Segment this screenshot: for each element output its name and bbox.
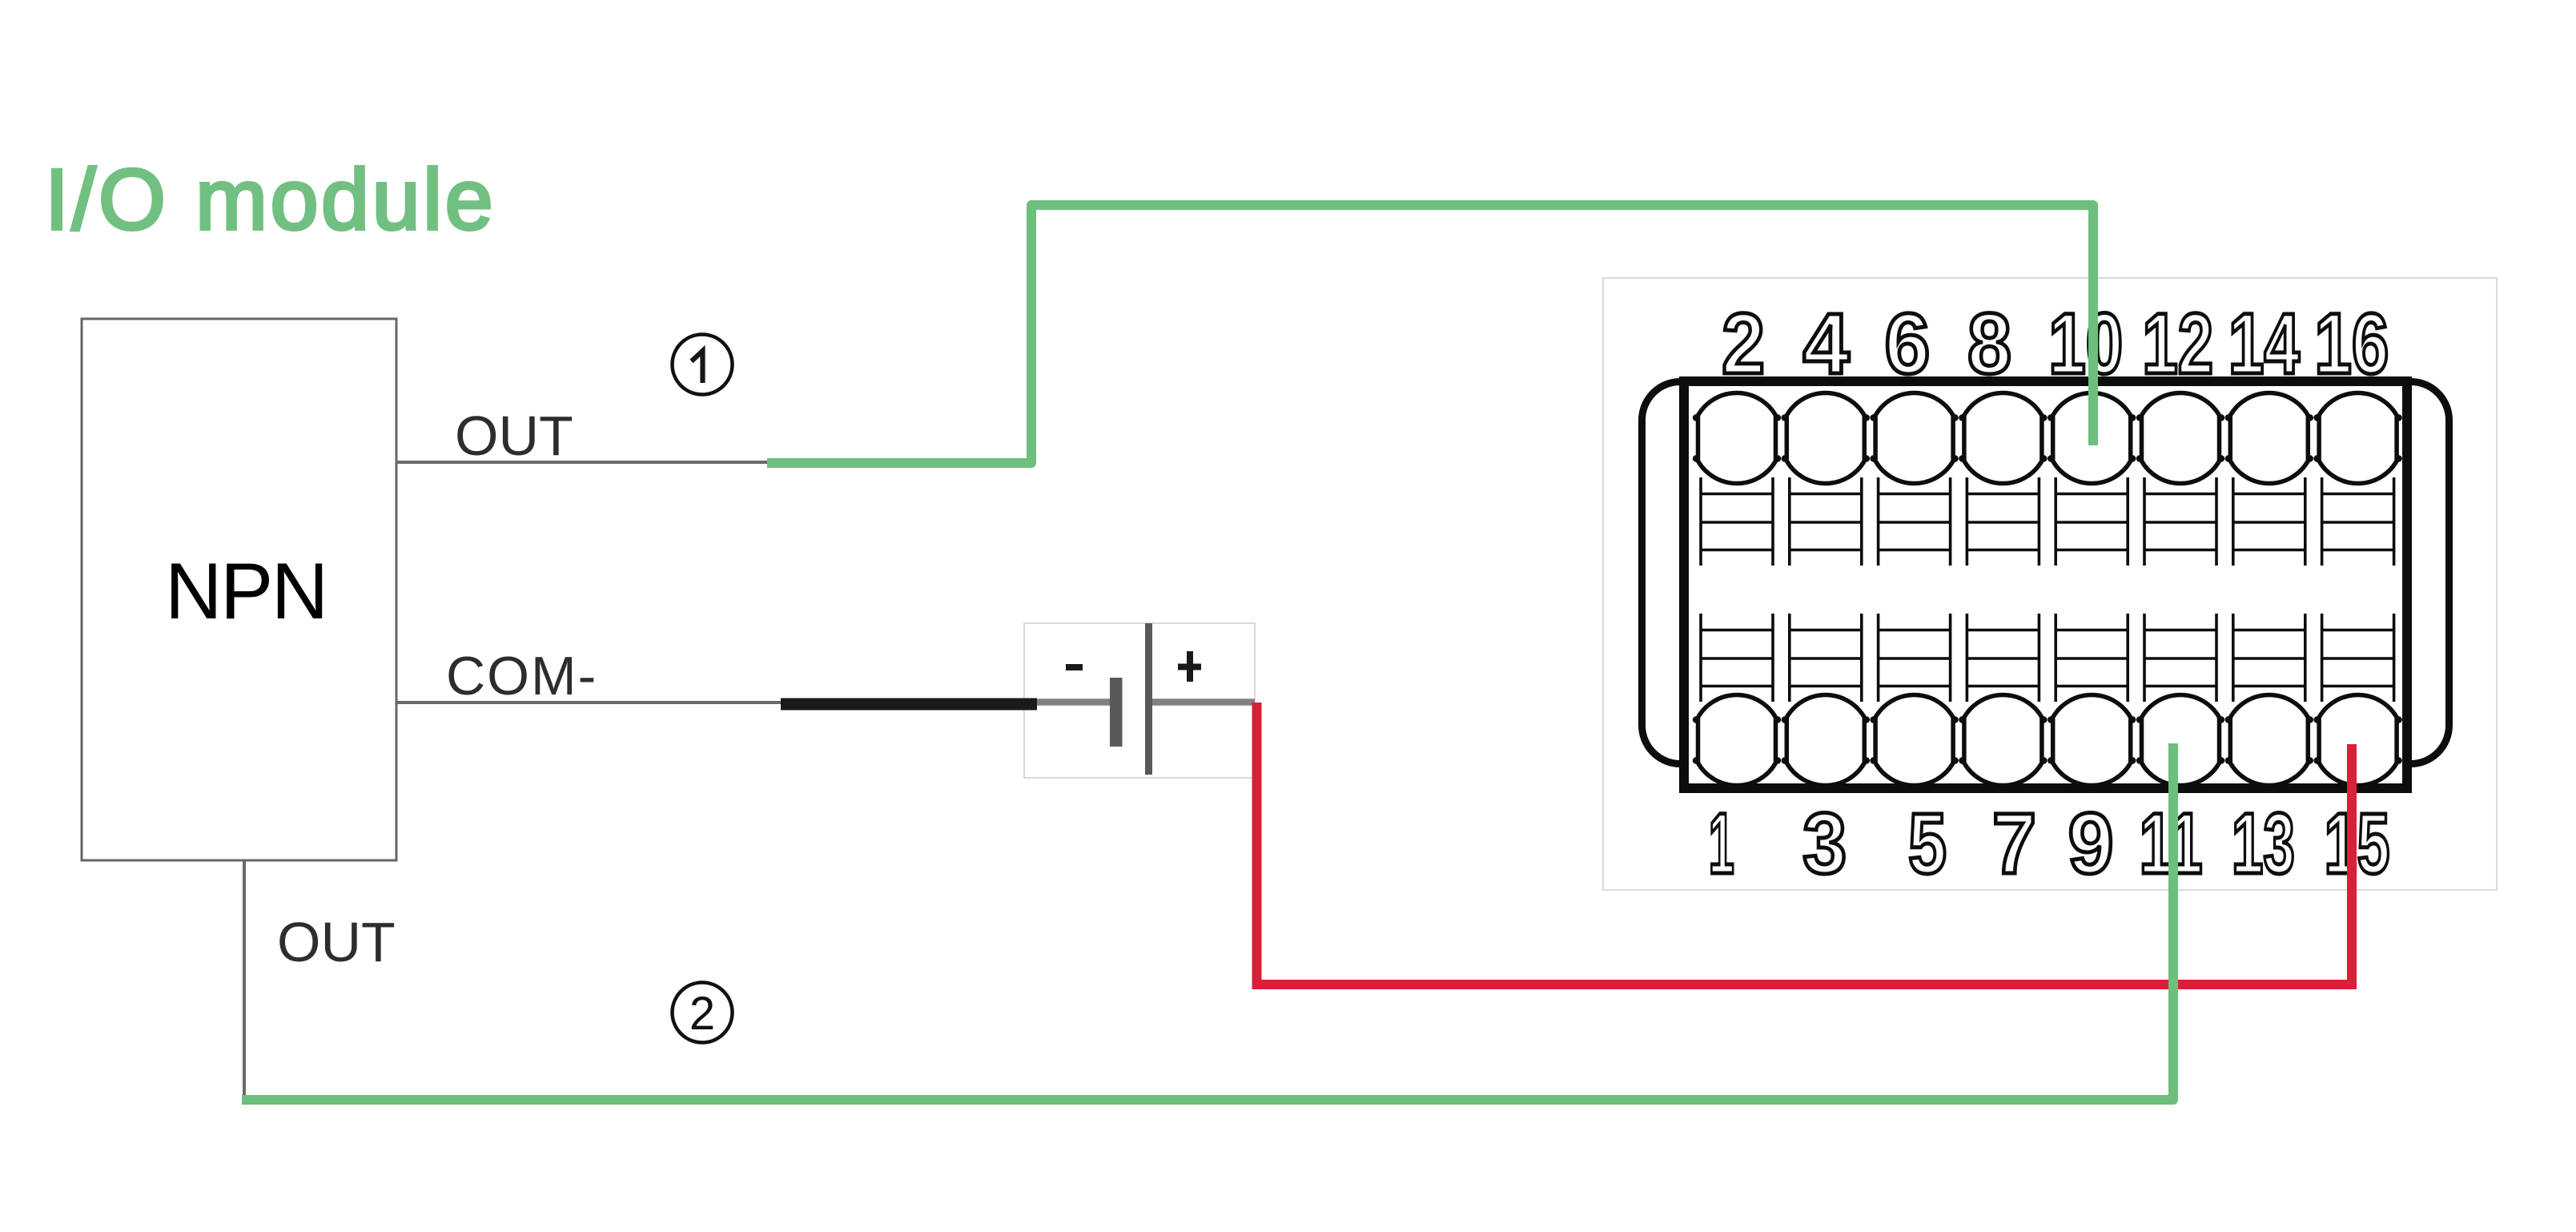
svg-text:I/O module: I/O module xyxy=(45,151,496,248)
svg-text:COM-: COM- xyxy=(446,646,597,707)
svg-text:6: 6 xyxy=(1884,295,1930,392)
svg-text:5: 5 xyxy=(1908,795,1947,892)
svg-text:9: 9 xyxy=(2068,795,2114,892)
svg-text:2: 2 xyxy=(1722,295,1765,392)
svg-text:NPN: NPN xyxy=(165,546,327,635)
svg-text:10: 10 xyxy=(2048,295,2123,392)
svg-text:13: 13 xyxy=(2232,795,2295,892)
svg-text:15: 15 xyxy=(2325,795,2390,892)
svg-text:OUT: OUT xyxy=(277,911,396,973)
svg-text:2: 2 xyxy=(689,988,715,1040)
svg-text:OUT: OUT xyxy=(455,405,573,467)
svg-text:8: 8 xyxy=(1967,295,2011,392)
svg-text:12: 12 xyxy=(2142,295,2213,392)
svg-text:7: 7 xyxy=(1992,795,2036,892)
svg-text:4: 4 xyxy=(1803,295,1850,392)
svg-text:1: 1 xyxy=(1709,795,1734,892)
svg-text:14: 14 xyxy=(2228,295,2300,392)
svg-text:16: 16 xyxy=(2314,295,2389,392)
svg-text:3: 3 xyxy=(1802,795,1847,892)
